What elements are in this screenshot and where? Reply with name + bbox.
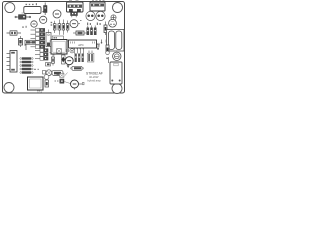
svg-text:40-20W: 40-20W [89, 75, 99, 79]
svg-text:uPC: uPC [78, 43, 85, 47]
svg-text:TP1: TP1 [37, 89, 42, 93]
svg-text:STK082 AF: STK082 AF [86, 72, 103, 76]
svg-text:hybrid amp: hybrid amp [88, 79, 102, 83]
